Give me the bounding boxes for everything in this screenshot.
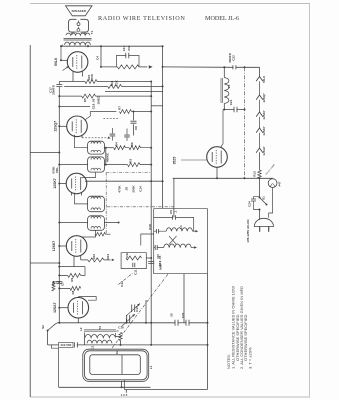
wire B- tap to frame bbox=[30, 152, 59, 154]
junction line y96.1 left bbox=[58, 95, 60, 97]
wire IFT2 dashdot gang bbox=[107, 206, 174, 208]
svg-text:R6: R6 bbox=[130, 142, 134, 146]
svg-text:.05: .05 bbox=[125, 187, 129, 192]
wire osc grid lead left bbox=[141, 234, 154, 246]
wire B+ audio line bbox=[101, 66, 117, 68]
junction line y106.5 bbox=[58, 106, 60, 108]
IFT3 secondary winding bbox=[88, 157, 105, 172]
AVC bus vertical bbox=[58, 96, 60, 323]
wire to arrow bbox=[139, 66, 147, 68]
wire padder line right bbox=[77, 344, 208, 346]
AC plug prong left bbox=[259, 227, 261, 232]
junction B- tap bbox=[58, 152, 60, 154]
wire V2 plate line bbox=[90, 111, 116, 113]
junction y322.8 AVC bus bbox=[58, 322, 60, 324]
resistor R19 IFT2 bottom bbox=[95, 232, 106, 236]
wire bypass cap stub b bbox=[126, 129, 128, 135]
filter choke L5 core bbox=[221, 78, 223, 103]
svg-text:R8: R8 bbox=[71, 290, 75, 294]
wire IFT2 secondary right stub bbox=[104, 222, 118, 224]
svg-text:C16: C16 bbox=[118, 325, 124, 329]
wire box to bus A bbox=[146, 257, 151, 259]
transformer T1 primary winding bbox=[65, 42, 91, 45]
resistor R8 bbox=[70, 286, 81, 290]
coil crossing link2 bbox=[169, 236, 177, 245]
wire plate line y81.5 bbox=[59, 81, 85, 83]
wire y322.8 right bbox=[189, 322, 208, 324]
wire cathode bypass vertical bbox=[58, 82, 60, 97]
svg-text:C4: C4 bbox=[95, 56, 99, 60]
junction loop left bbox=[121, 386, 123, 388]
junction V5 grid bbox=[58, 307, 60, 309]
wire IFT3 link vertical bbox=[105, 148, 107, 165]
svg-text:C14: C14 bbox=[139, 186, 143, 192]
gang linkage dash-dot long bbox=[112, 274, 168, 348]
bus B vertical x162.6 bbox=[162, 46, 164, 208]
junction y109.5 left bbox=[223, 109, 225, 111]
wire y322.8 mid bbox=[178, 322, 187, 324]
wire R2 top bbox=[53, 282, 55, 283]
wire osc box bottom drop bbox=[183, 274, 185, 323]
svg-text:C7: C7 bbox=[61, 282, 65, 286]
capacitor C24 branch bbox=[254, 197, 260, 210]
svg-text:12SK7: 12SK7 bbox=[262, 110, 266, 120]
transformer T1 core bbox=[64, 39, 92, 41]
wire line y96.1 right bbox=[96, 95, 152, 97]
resistor R17 bbox=[117, 65, 139, 69]
pilot lamp bbox=[268, 179, 277, 188]
junction y109.5 right bbox=[244, 109, 246, 111]
wire line y96.1 bbox=[59, 95, 81, 97]
svg-text:35Z5: 35Z5 bbox=[172, 157, 176, 165]
svg-text:R9: R9 bbox=[70, 278, 74, 282]
capacitor C8 on AVC bus bbox=[56, 282, 62, 284]
svg-text:R4: R4 bbox=[115, 142, 119, 146]
junction y322.8 x145 bbox=[145, 322, 147, 324]
svg-text:110: 110 bbox=[156, 254, 160, 259]
wire C10 leads bbox=[154, 247, 164, 249]
svg-text:.002: .002 bbox=[127, 45, 131, 51]
capacitor C21 bbox=[234, 107, 237, 113]
wire coupling cap drop2 bbox=[133, 124, 135, 135]
wire loop exit 1 bbox=[121, 381, 123, 387]
svg-text:410-560: 410-560 bbox=[60, 343, 71, 347]
padder label box bbox=[59, 342, 73, 347]
wire L4 left lead bbox=[154, 230, 167, 232]
wire V3 pin stub right bbox=[81, 192, 83, 195]
junction screen tap top bbox=[100, 45, 102, 47]
wire L5 top bbox=[223, 67, 225, 77]
junction V3 grid bbox=[58, 183, 60, 185]
trimmer C15 arrow bbox=[126, 304, 140, 317]
switch S1 dot2 bbox=[266, 204, 268, 206]
wire loop ground stub bbox=[125, 390, 127, 393]
wire heater chain to R13 bbox=[259, 152, 261, 170]
svg-text:456KC: 456KC bbox=[106, 152, 110, 162]
IFT2 primary loops bottom bbox=[91, 208, 101, 210]
junction plug top bbox=[259, 209, 261, 211]
wire IFT2 secondary left to AVC bus bbox=[59, 222, 87, 224]
heater 50L6 bbox=[256, 77, 263, 82]
svg-text:C15: C15 bbox=[135, 306, 139, 312]
wire cathode line y178.3 bbox=[173, 177, 273, 179]
wire bus A to bus B jog bbox=[151, 105, 162, 107]
svg-text:C22: C22 bbox=[231, 55, 235, 61]
switch S2 contact bbox=[47, 330, 49, 332]
svg-text:C18 .05: C18 .05 bbox=[92, 98, 96, 109]
svg-text:C21: C21 bbox=[229, 99, 233, 105]
wire dashdot y172.5 bbox=[106, 172, 151, 174]
capacitor C22 bbox=[233, 65, 236, 69]
svg-text:C12: C12 bbox=[120, 281, 124, 287]
junction line y86.4 bus B bbox=[162, 85, 164, 87]
junction padder busA bbox=[150, 344, 152, 346]
wire loop exit 2 bbox=[123, 380, 125, 390]
svg-text:S2: S2 bbox=[41, 325, 45, 329]
svg-text:.1: .1 bbox=[173, 210, 177, 213]
IFT2 primary loops top bbox=[91, 197, 101, 199]
wire loop left riser bbox=[51, 345, 58, 387]
capacitor C13 plates bbox=[126, 53, 129, 59]
oscillator coil L2 core bbox=[84, 330, 116, 331]
trimmer C14 arrow bbox=[122, 314, 136, 327]
tube V1 50L6 bbox=[67, 52, 88, 73]
wire heater chain segment bbox=[259, 81, 261, 95]
wire AVC dashed bbox=[82, 137, 107, 139]
IFT3 secondary loops top bbox=[91, 158, 101, 160]
loop antenna tap bbox=[121, 355, 123, 375]
svg-text:VOL: VOL bbox=[55, 167, 59, 173]
coil crossing link1 bbox=[169, 236, 177, 245]
wire line y86.4 right bbox=[122, 85, 163, 87]
AC plug body bbox=[254, 218, 273, 226]
junction B+ dashline bbox=[244, 66, 246, 68]
capacitor C11 in box bbox=[133, 263, 135, 268]
IFT2 secondary loops top bbox=[91, 217, 101, 219]
svg-text:L5: L5 bbox=[227, 84, 231, 88]
junction B+ audio bbox=[100, 66, 102, 68]
junction V2 plate bus A bbox=[150, 111, 152, 113]
wire V4 plate stub bbox=[80, 256, 82, 260]
wire line y181.2 bbox=[85, 180, 163, 182]
dash-dot bus x244.5 bbox=[244, 67, 246, 178]
svg-text:C1: C1 bbox=[91, 345, 95, 349]
svg-text:R5: R5 bbox=[83, 98, 87, 102]
wire line y147.7 right bbox=[125, 147, 151, 149]
wire dashed stub y118.6 bbox=[103, 118, 119, 120]
junction link bbox=[58, 281, 60, 283]
wire y259.9 right bbox=[104, 259, 111, 261]
wire L2 right lead bbox=[116, 333, 121, 337]
wire y288.4 left bbox=[59, 287, 70, 289]
junction cathode dash bbox=[244, 177, 246, 179]
wire T1 left lead to tube V1 bbox=[61, 45, 63, 61]
trimmer C14 plates bbox=[127, 315, 130, 323]
wire osc box right edge down bbox=[207, 274, 209, 390]
loop antenna second turn bbox=[85, 351, 148, 380]
wire V3 grid to AVC bus bbox=[59, 183, 66, 185]
svg-text:T1: T1 bbox=[90, 30, 94, 34]
svg-text:2.2K: 2.2K bbox=[115, 79, 119, 86]
wire heater chain top bbox=[259, 67, 261, 76]
junction y288.4 bbox=[58, 287, 60, 289]
wire IFT2 bottom lead bbox=[82, 230, 96, 237]
wire lamp bottom bbox=[269, 188, 273, 218]
junction cathode bbox=[216, 177, 218, 179]
junction bus B top bbox=[162, 45, 164, 47]
junction y181.2 bus A bbox=[150, 180, 152, 182]
svg-text:R18: R18 bbox=[148, 224, 152, 230]
svg-text:12SK7: 12SK7 bbox=[53, 178, 57, 188]
tube V5 12SA7 bbox=[68, 297, 89, 318]
svg-text:R16: R16 bbox=[110, 80, 114, 86]
wire C5 line bbox=[154, 218, 194, 232]
IFT3 primary loops top bbox=[91, 142, 101, 144]
junction y164.6 bus A bbox=[150, 164, 152, 166]
svg-text:L1: L1 bbox=[149, 365, 153, 369]
svg-text:R12: R12 bbox=[106, 254, 110, 260]
AVC arrow bbox=[108, 136, 111, 138]
resistor R10 bbox=[88, 258, 104, 262]
capacitor C9 bbox=[175, 320, 178, 326]
wire rectifier cathode bbox=[216, 167, 218, 178]
wire y275.4 left bbox=[59, 274, 67, 276]
junction padder right bbox=[207, 344, 209, 346]
svg-text:C17: C17 bbox=[49, 87, 53, 93]
AVC filter box bbox=[121, 253, 146, 269]
wire R9 to cathode bbox=[81, 267, 85, 276]
resistor R4 bbox=[114, 146, 126, 150]
capacitor C3 padder bbox=[74, 342, 77, 347]
capacitor C13 loop bbox=[116, 56, 139, 67]
switch S2 link bbox=[56, 323, 58, 324]
junction cathode chain bbox=[259, 177, 261, 179]
B+ connector arrow bbox=[149, 65, 153, 68]
resistor R9 bbox=[68, 273, 81, 277]
svg-text:3. T = ±20%: 3. T = ±20% bbox=[247, 347, 252, 369]
junction V4 grid bbox=[58, 245, 60, 247]
svg-text:470K: 470K bbox=[90, 73, 94, 81]
leader line 35Z5 bbox=[181, 159, 207, 161]
svg-text:12SA7: 12SA7 bbox=[262, 146, 266, 156]
junction IFT3 link bottom bbox=[105, 164, 107, 166]
svg-text:105-125V AC-DC: 105-125V AC-DC bbox=[246, 218, 250, 242]
wire line y164.6 bbox=[104, 164, 127, 166]
svg-text:12SK7: 12SK7 bbox=[52, 241, 56, 251]
heater 12SA7 bbox=[256, 148, 263, 153]
wire V2 pin stub left bbox=[74, 135, 76, 139]
junction box bus A bbox=[150, 257, 152, 259]
junction top line left bbox=[60, 45, 62, 47]
wire osc feed into box bbox=[173, 178, 175, 217]
junction T1 right lead bbox=[87, 45, 89, 47]
capacitor C20 bbox=[186, 320, 189, 326]
junction y181.2 bus B bbox=[162, 180, 164, 182]
wire dashdot vertical x106.2 bbox=[105, 173, 107, 235]
capacitor bypass a bbox=[110, 134, 116, 136]
wire bypass cap stub b2 bbox=[126, 138, 128, 141]
wire trimmer C14 down bbox=[125, 319, 127, 323]
wire V2 plate elbow bbox=[86, 112, 91, 120]
svg-text:12SQ7: 12SQ7 bbox=[262, 93, 266, 103]
oscillator coil L2 winding 2 bbox=[87, 340, 112, 343]
junction padder R1 bbox=[120, 344, 122, 346]
wire heater chain segment bbox=[259, 100, 261, 112]
junction bus A top bbox=[150, 81, 152, 83]
tube V3 12SK7 bbox=[66, 173, 87, 194]
oscillator shield box bbox=[154, 209, 208, 274]
capacitor C6 bbox=[131, 121, 137, 123]
wire line y322.8 bbox=[58, 322, 176, 324]
svg-text:50L6: 50L6 bbox=[54, 58, 58, 66]
svg-text:R13: R13 bbox=[253, 171, 257, 177]
IFT3 primary loops bottom bbox=[91, 150, 101, 152]
coil L3 in box bbox=[164, 244, 192, 247]
wire loop line y389.5 bbox=[124, 389, 207, 391]
wire V3 pin stub left bbox=[71, 193, 73, 196]
wire B- to y263 bbox=[30, 262, 59, 264]
wire V4 cathode stub bbox=[73, 256, 75, 266]
wire V3 plate to IFT2 bbox=[75, 193, 88, 204]
resistor R6 bbox=[129, 146, 141, 150]
wire heater chain segment bbox=[259, 117, 261, 128]
wire V2 grid to AVC bus bbox=[59, 125, 66, 127]
wire y266.6 bbox=[59, 266, 85, 268]
svg-text:C24: C24 bbox=[248, 201, 252, 207]
wire top line y46.2 bbox=[61, 45, 163, 47]
trimmer C15 plates bbox=[132, 304, 135, 312]
junction IFT2 AVC bbox=[58, 222, 60, 224]
heater 12SQ7 bbox=[256, 95, 263, 100]
wire R19 right bbox=[106, 233, 111, 235]
svg-text:C6: C6 bbox=[134, 126, 138, 130]
speaker magnet left half bbox=[69, 19, 77, 32]
svg-text:C13: C13 bbox=[122, 45, 126, 51]
svg-text:#47: #47 bbox=[278, 181, 282, 186]
capacitor C17 electrolytic bbox=[56, 85, 62, 87]
wire switch down bbox=[47, 331, 49, 345]
resistor R3 bbox=[128, 163, 141, 167]
speaker magnet right half bbox=[80, 19, 88, 32]
IFT2 secondary winding bbox=[88, 216, 105, 231]
heater 12SK7 bbox=[256, 112, 263, 117]
wire line y86.4 bbox=[64, 85, 108, 87]
resistor R15 bbox=[85, 80, 97, 84]
wire voice coil left lead bbox=[71, 32, 73, 35]
junction y322.8 x126 bbox=[125, 322, 127, 324]
junction IFT2 right stub bbox=[118, 222, 120, 224]
svg-text:C5: C5 bbox=[169, 210, 173, 214]
wire line y106.5 bbox=[59, 106, 90, 108]
loop antenna outer turn bbox=[83, 349, 149, 381]
IFT2 primary winding bbox=[88, 196, 105, 212]
L3 slug arrow bbox=[191, 247, 195, 249]
wire V5 grid2 top line bbox=[78, 297, 96, 301]
gang linkage dash-dot short bbox=[119, 273, 134, 285]
wire plate line y81.5 right bbox=[97, 81, 151, 83]
wire line y91.4 bbox=[105, 90, 163, 92]
svg-text:R11: R11 bbox=[125, 252, 129, 258]
junction y263 bbox=[58, 262, 60, 264]
wire B+ feed right bbox=[163, 66, 234, 68]
junction B+ choke bbox=[223, 66, 225, 68]
tube V6 35Z5 rectifier bbox=[207, 147, 228, 168]
wire V1 grid connect bbox=[61, 59, 67, 61]
resistor R2 small vertical bbox=[52, 283, 55, 291]
coil L4 in box bbox=[166, 228, 192, 231]
wire IFT3 bottom lead to V3 bbox=[82, 172, 96, 177]
wire R1 down bbox=[120, 341, 122, 345]
wire padder line left bbox=[48, 344, 59, 346]
wire bypass cap stub a2 bbox=[111, 137, 113, 141]
wire line y147.7 bbox=[104, 147, 113, 149]
wire bypass cap stub a bbox=[111, 128, 113, 133]
svg-text:.05: .05 bbox=[170, 313, 174, 318]
junction B+ bus B bbox=[162, 66, 164, 68]
junction y322.8 busA bbox=[150, 322, 152, 324]
svg-text:470K: 470K bbox=[118, 185, 122, 193]
wire coupling cap drop bbox=[133, 112, 135, 121]
wire switch chain bbox=[259, 178, 261, 196]
svg-text:C2: C2 bbox=[115, 350, 119, 354]
junction V1 grid bbox=[60, 59, 62, 61]
wire V1 grid stub bbox=[82, 71, 84, 76]
capacitor C5 in box bbox=[173, 215, 176, 220]
junction V2 grid bbox=[58, 125, 60, 127]
B- bus left bbox=[29, 45, 31, 397]
svg-text:S1: S1 bbox=[262, 196, 266, 200]
resistor R11 in box bbox=[126, 256, 142, 260]
wire loop line y387.3 bbox=[59, 386, 151, 388]
junction IFT3 link top bbox=[105, 147, 107, 149]
bus A vertical x151.2 bbox=[150, 82, 152, 345]
svg-text:12SK7: 12SK7 bbox=[262, 126, 266, 136]
wire V5 bottom stub bbox=[77, 318, 79, 323]
wire V1 cathode stub bbox=[72, 72, 74, 82]
svg-text:12SQ7: 12SQ7 bbox=[53, 121, 57, 132]
loop antenna inner turn bbox=[90, 355, 141, 375]
wire V2 diode plate to IFT3 bbox=[75, 139, 88, 148]
trimmer on L4 lead bbox=[156, 229, 158, 234]
switch S2 lever bbox=[48, 324, 56, 331]
svg-text:1 2 3: 1 2 3 bbox=[121, 393, 128, 397]
svg-text:SPEAKER: SPEAKER bbox=[71, 9, 86, 13]
junction line y96.1 right bbox=[150, 95, 152, 97]
wire line y164.6 right bbox=[140, 164, 151, 166]
wire V5 grid to AVC bus bbox=[59, 307, 68, 309]
wire L2 left lead bbox=[84, 333, 86, 345]
svg-text:50L6: 50L6 bbox=[262, 76, 266, 83]
capacitor C10 in box bbox=[155, 245, 157, 250]
wire to plug bbox=[259, 210, 261, 220]
svg-text:C20: C20 bbox=[181, 312, 185, 318]
speaker cone bbox=[66, 6, 93, 16]
wire rectifier plate bbox=[221, 110, 224, 148]
svg-text:R3: R3 bbox=[129, 159, 133, 163]
svg-text:L4: L4 bbox=[179, 225, 183, 229]
resistor R1 vertical bbox=[119, 333, 122, 341]
svg-text:12SA7: 12SA7 bbox=[53, 302, 57, 312]
switch S1 lever bbox=[260, 198, 267, 205]
wire T1 right lead bbox=[87, 45, 89, 46]
junction IFT3 AVC bbox=[58, 164, 60, 166]
wire IFT3 secondary to AVC bus bbox=[59, 164, 87, 166]
filter choke L5 bbox=[224, 78, 229, 104]
oscillator coil L2 winding 1 bbox=[85, 335, 115, 338]
svg-text:R10: R10 bbox=[92, 254, 96, 260]
speaker voice coil center bbox=[77, 21, 80, 32]
AC plug prong right bbox=[268, 227, 270, 232]
